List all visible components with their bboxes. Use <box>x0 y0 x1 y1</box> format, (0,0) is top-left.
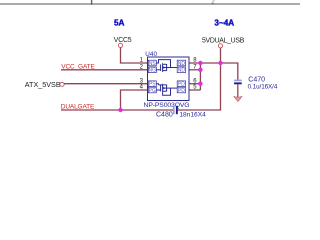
svg-text:NG: NG <box>149 68 157 74</box>
pin name box ND (pin7) <box>177 67 185 74</box>
transistor Q N-channel MOSFET inside U40 (upper) <box>156 60 177 72</box>
junction pin8/bus <box>198 61 202 65</box>
svg-text:3~4A: 3~4A <box>214 18 234 27</box>
svg-text:PS: PS <box>149 82 156 88</box>
svg-text:U40: U40 <box>145 51 157 58</box>
svg-text:NP-PS003QVG: NP-PS003QVG <box>144 102 190 109</box>
wire ATX_5VSB to pin 3 <box>64 83 148 85</box>
wire pin4 to DUALGATE junction <box>121 90 148 110</box>
junction DUALGATE/pin4 <box>118 108 122 112</box>
junction pin7/bus <box>198 68 202 72</box>
pin name box PG (pin4) <box>148 87 156 94</box>
pin name box ND (pin8) <box>177 60 185 67</box>
junction pin6/bus <box>198 82 202 86</box>
capacitor C480 (18n16X4) in DUALGATE/5VDUAL line <box>173 106 178 114</box>
pin name box PD (pin5) <box>177 87 185 94</box>
svg-text:5A: 5A <box>114 19 125 28</box>
svg-text:PD: PD <box>178 88 185 94</box>
svg-text:NS: NS <box>149 61 157 67</box>
svg-text:C480: C480 <box>156 111 173 118</box>
svg-text:5VDUAL_USB: 5VDUAL_USB <box>202 37 245 44</box>
wire pin 7 stub <box>189 69 200 71</box>
svg-text:PG: PG <box>149 88 156 94</box>
svg-text:C470: C470 <box>248 77 265 84</box>
svg-text:2: 2 <box>211 0 215 5</box>
wire DUALGATE horizontal to C480 <box>61 109 174 111</box>
svg-text:PD: PD <box>178 82 185 88</box>
pin name box NS (pin1) <box>148 60 156 67</box>
pin name box NG (pin2) <box>148 67 156 74</box>
power symbol 5VDUAL_USB <box>202 37 245 48</box>
wire pin 6 stub <box>189 83 200 85</box>
svg-text:VCC5: VCC5 <box>114 37 132 44</box>
wire 5VDUAL_USB vertical down to C480 row <box>176 48 220 110</box>
wire pin 8 stub to output bus <box>189 62 200 64</box>
ground symbol (power arrow) <box>234 96 243 101</box>
svg-text:ND: ND <box>178 68 186 74</box>
wire pin 5 stub <box>189 89 200 91</box>
IC U40 dual MOSFET body <box>148 57 190 101</box>
svg-text:0.1u/16X/4: 0.1u/16X/4 <box>248 84 278 91</box>
svg-text:ND: ND <box>178 61 186 67</box>
port ATX_5VSB <box>25 80 64 89</box>
pin name box PD (pin6) <box>177 81 185 88</box>
pin name box PS (pin3) <box>148 81 156 88</box>
svg-text:ATX_5VSB: ATX_5VSB <box>25 80 61 89</box>
wire VCC5 down to pin1 row <box>121 47 148 63</box>
wire VCC_GATE to pin 2 <box>61 69 148 71</box>
svg-text:18n16X4: 18n16X4 <box>179 111 206 118</box>
junction 5VDUAL_USB/output row <box>218 61 222 65</box>
capacitor C470 (0.1u/16X/4) <box>234 80 242 85</box>
wire C470 to ground <box>237 84 239 97</box>
power symbol VCC5 <box>114 37 132 48</box>
wire output bus vertical <box>199 63 201 90</box>
wire output row to C470 <box>200 63 237 80</box>
transistor Q P-channel MOSFET inside U40 (lower) <box>156 84 177 96</box>
